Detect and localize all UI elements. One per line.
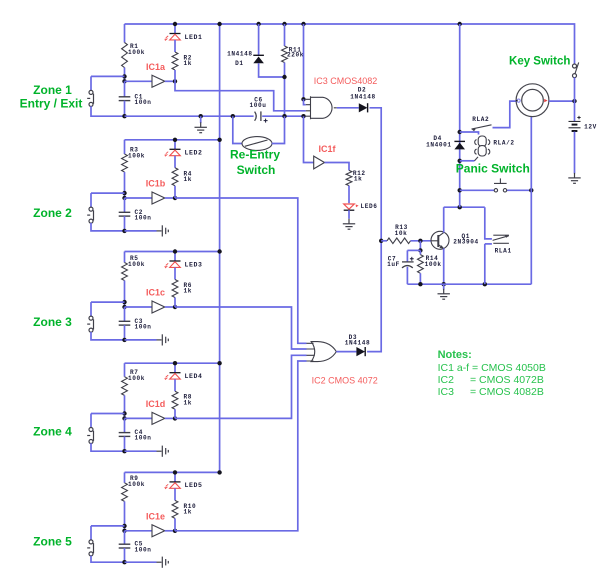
svg-text:1k: 1k (184, 509, 193, 516)
ground driver 0V (438, 289, 450, 299)
svg-text:100k: 100k (128, 152, 145, 159)
svg-text:Entry / Exit: Entry / Exit (20, 97, 83, 111)
node panic right on bell column (529, 188, 533, 192)
svg-text:IC1 a-f = CMOS 4050B: IC1 a-f = CMOS 4050B (438, 362, 546, 374)
diode D3 1N4148 (356, 347, 365, 356)
node battery positive (572, 99, 576, 103)
svg-text:Zone 1: Zone 1 (33, 83, 72, 97)
key switch lever (575, 62, 579, 74)
wire R8 bottom to output node (174, 409, 176, 418)
svg-text:Zone 2: Zone 2 (33, 206, 72, 220)
svg-text:100n: 100n (135, 435, 152, 442)
wire bell right to battery node (549, 100, 575, 102)
wire C2 top stub (124, 198, 126, 212)
wire zone4 output to IC2 input3 (175, 355, 307, 418)
resistor R2 1k (172, 52, 178, 70)
wire C3 bottom stub (124, 325, 126, 340)
wire R9 top stub (124, 472, 126, 482)
node zone2 output (173, 196, 177, 200)
resistor R4 1k (172, 168, 178, 186)
switch zone 2 (87, 207, 93, 223)
wire zone4 0V rail (125, 450, 157, 452)
svg-text:D1: D1 (235, 60, 244, 67)
capacitor C2 100n (119, 212, 131, 216)
svg-text:100n: 100n (135, 546, 152, 553)
wire D2 cathode down to base node (370, 108, 382, 241)
switch Key Switch (573, 64, 577, 78)
wire Q1 collector up (443, 207, 445, 232)
svg-text:100n: 100n (135, 214, 152, 221)
node LED2 top on zone rail (173, 138, 177, 142)
resistor R11 220k (282, 46, 288, 63)
ground zone2 (157, 225, 169, 236)
relay coil RLA/2 (475, 136, 490, 161)
capacitor C6 100u (series gap in rail) (254, 112, 263, 121)
svg-text:Key Switch: Key Switch (509, 55, 570, 67)
ground LED6 (343, 219, 355, 229)
node zone5 cap to 0V rail (122, 560, 126, 564)
node zone2 switch joins input (122, 191, 126, 195)
node R11 on bus (282, 22, 286, 26)
switch zone 3 (87, 316, 93, 332)
resistor R8 1k (172, 391, 178, 409)
svg-text:100n: 100n (135, 99, 152, 106)
wire R2 bottom to output node (174, 70, 176, 81)
svg-text:100k: 100k (128, 481, 145, 488)
wire LED2 cathode to R4 (174, 156, 176, 168)
wire R14 top stub (419, 250, 421, 254)
LED LED1 (164, 34, 180, 41)
wire zone5 switch lower lead to 0V rail (91, 556, 125, 563)
svg-text:10k: 10k (395, 230, 408, 237)
node base drive junction (379, 239, 383, 243)
switch Panic pushbutton (494, 178, 507, 192)
LED LED6 (344, 204, 359, 210)
svg-text:IC2 CMOS 4072: IC2 CMOS 4072 (312, 376, 378, 386)
wire IC3 input2 jog (304, 99, 306, 104)
wire LED1 anode stub (174, 24, 176, 34)
node relay column on bus (458, 22, 462, 26)
wire C4 bottom stub (124, 436, 126, 451)
wire IC1e output stub (165, 530, 175, 532)
svg-text:100k: 100k (128, 49, 145, 56)
svg-text:220k: 220k (287, 52, 304, 59)
wire zone3 0V rail (125, 339, 157, 341)
capacitor C7 1uF (402, 262, 414, 268)
wire LED3 anode stub (174, 252, 176, 262)
svg-text:IC3 CMOS4082: IC3 CMOS4082 (314, 76, 378, 86)
node D1-R11 junction (282, 75, 286, 79)
switch zone 1 (87, 90, 93, 106)
wire IC1e input (125, 530, 153, 532)
svg-text:1N4148: 1N4148 (350, 94, 376, 101)
op-amp buffer IC1e (152, 525, 165, 537)
node R14 on 0V rail (418, 282, 422, 286)
svg-text:Zone 5: Zone 5 (33, 535, 72, 549)
svg-text:LED1: LED1 (185, 34, 203, 41)
wire C7 branch (407, 249, 420, 251)
switch zone 4 (87, 428, 93, 444)
svg-text:1k: 1k (354, 176, 363, 183)
wire C4 top stub (124, 418, 126, 432)
wire R6 bottom to output node (174, 298, 176, 308)
svg-text:100n: 100n (135, 323, 152, 330)
wire zone5 switch upper lead (90, 526, 92, 540)
capacitor C3 100n (119, 321, 131, 325)
svg-text:Zone 3: Zone 3 (33, 315, 72, 329)
node zone5 rail taps supply column (217, 470, 221, 474)
capacitor C5 100n (119, 544, 131, 548)
svg-text:IC1d: IC1d (146, 399, 166, 409)
resistor R12 1k (346, 170, 352, 185)
wire C3 top stub (124, 307, 126, 321)
wire R1 bottom to input node (124, 68, 126, 82)
wire supply column to zone rails (219, 24, 221, 472)
wire D3 cathode up to base node (367, 241, 381, 352)
svg-text:Zone 4: Zone 4 (33, 425, 72, 439)
wire IC1f output to R12 (325, 163, 350, 171)
bell / sounder (516, 84, 549, 117)
node D4 top (458, 130, 462, 134)
resistor R10 1k (172, 500, 178, 518)
node zone4 cap to 0V rail (122, 449, 126, 453)
svg-text:Notes:: Notes: (438, 349, 472, 361)
wire R1 top stub (124, 24, 126, 43)
wire LED2 anode stub (174, 140, 176, 150)
op-amp buffer IC1a (152, 75, 165, 87)
wire node to R13 (381, 240, 387, 242)
node D1 on bus (256, 22, 260, 26)
node LED5 top on zone rail (173, 470, 177, 474)
LED LED4 (164, 373, 180, 380)
op-amp buffer IC1b (152, 192, 165, 204)
node zone3 IC input (122, 305, 126, 309)
svg-text:1k: 1k (184, 60, 193, 67)
wire ground stem (443, 284, 445, 289)
node IC3 input1 (301, 97, 305, 101)
svg-text:IC1b: IC1b (146, 179, 166, 189)
wire R5 top stub (124, 252, 126, 263)
wire Q1 emitter down (443, 248, 445, 284)
wire panic right lead (507, 189, 532, 191)
node LED1 top on bus (173, 22, 177, 26)
wire zone3 output to IC2 input2 (175, 307, 307, 349)
wire zone1 output to IC3 input (175, 81, 306, 111)
node zone1 switch joins input (122, 74, 126, 78)
capacitor C4 100n (119, 433, 131, 437)
wire base node down (419, 241, 421, 251)
svg-text:IC2: IC2 (438, 374, 455, 386)
wire R11 top stub (284, 24, 286, 46)
svg-text:LED2: LED2 (185, 150, 203, 157)
svg-text:100k: 100k (425, 261, 442, 268)
wire R5 bottom to input node (124, 281, 126, 308)
wire bell bottom column to 0V rail (530, 117, 532, 285)
svg-text:100u: 100u (249, 102, 266, 109)
svg-text:= CMOS 4072B: = CMOS 4072B (470, 374, 544, 386)
wire re-entry right leg (272, 116, 285, 143)
wire zone3 switch upper lead (90, 302, 92, 316)
node zone3 switch joins input (122, 300, 126, 304)
wire R3 top stub (124, 140, 126, 154)
wire R9 bottom to input node (124, 501, 126, 530)
resistor R5 100k (122, 263, 128, 281)
svg-text:IC1a: IC1a (146, 62, 166, 72)
node zone1 IC input (122, 79, 126, 83)
wire zone1 switch upper lead (90, 76, 92, 90)
wire battery negative to ground (574, 132, 576, 174)
wire coil top lead (460, 132, 479, 135)
wire zone2 0V rail (125, 230, 157, 232)
wire panic left lead (460, 189, 495, 191)
node zone5 switch joins input (122, 524, 126, 528)
op-amp IC2 4072 OR gate (307, 342, 337, 362)
wire R11 bottom to C6 rail (284, 63, 286, 117)
wire R3 bottom to input node (124, 172, 126, 198)
ground main 0V rail (195, 122, 207, 132)
wire R7 top stub (124, 363, 126, 377)
node D4 bottom (458, 159, 462, 163)
svg-text:RLA1: RLA1 (495, 248, 512, 255)
node emitter on 0V rail (442, 282, 446, 286)
wire zone3 top rail (125, 251, 220, 253)
node relay column joins collector (458, 205, 462, 209)
wire LED4 anode stub (174, 363, 176, 373)
wire collector top rail (444, 206, 485, 208)
node zone4 output (173, 416, 177, 420)
wire zone3 switch top to node (91, 301, 125, 303)
svg-text:1N4148: 1N4148 (345, 340, 371, 347)
node zone1 cap to 0V rail (122, 114, 126, 118)
LED LED2 (164, 149, 180, 156)
wire zone5 output to IC2 input4 (175, 361, 307, 531)
wire C1 top stub (124, 81, 126, 97)
op-amp IC3 4082 AND gate (306, 96, 337, 119)
resistor R3 100k (122, 154, 128, 172)
wire IC1a output stub (165, 80, 175, 82)
resistor R1 100k (122, 43, 128, 68)
svg-text:1N4148: 1N4148 (227, 51, 253, 58)
wire zone2 output to IC2 input1 (175, 198, 307, 343)
wire D1 cathode stub (258, 24, 260, 55)
wire RLA1 lower lead to 0V (484, 244, 486, 284)
svg-text:Panic Switch: Panic Switch (456, 162, 530, 176)
ground zone4 (157, 446, 169, 457)
wire driver 0V rail (407, 283, 531, 285)
svg-text:Re-Entry: Re-Entry (230, 147, 280, 161)
wire C2 bottom stub (124, 216, 126, 231)
relay contact RLA1 (493, 235, 509, 243)
battery 12V (569, 116, 581, 131)
wire IC1b output stub (165, 197, 175, 199)
node C6 rail to IC1f branch (301, 114, 305, 118)
wire RLA2 to bell left (493, 101, 517, 128)
wire LED5 cathode to R10 (174, 488, 176, 500)
op-amp buffer IC1c (152, 301, 165, 313)
node zone4 IC input (122, 416, 126, 420)
node zone4 rail taps supply column (217, 361, 221, 365)
wire C5 bottom stub (124, 548, 126, 562)
node re-entry left tap (231, 114, 235, 118)
wire zone1 0V / C6 rail (left part) (125, 115, 306, 117)
wire C5 top stub (124, 531, 126, 544)
ground battery (568, 173, 580, 183)
wire ground stem (200, 116, 202, 123)
relay contact RLA2 (472, 125, 492, 129)
wire zone2 switch top to node (91, 192, 125, 194)
op-amp buffer IC1f (314, 156, 325, 169)
re-entry switch (242, 137, 272, 151)
node zone3 cap to 0V rail (122, 338, 126, 342)
node zone4 switch joins input (122, 411, 126, 415)
node zone2 rail taps supply column (217, 138, 221, 142)
wire R13 to Q1 base (411, 240, 432, 242)
wire zone5 switch top to node (91, 525, 125, 527)
resistor R13 10k (387, 238, 411, 244)
wire D1 anode to R11 bottom (259, 63, 285, 77)
svg-text:LED6: LED6 (361, 203, 378, 210)
wire R14 bottom stub (419, 273, 421, 284)
wire zone5 0V rail (125, 561, 157, 563)
wire IC1c input (125, 306, 153, 308)
wire LED4 cathode to R8 (174, 379, 176, 391)
wire zone4 top rail (125, 362, 220, 364)
wire zone2 switch upper lead (90, 193, 92, 207)
wire C7 bottom stub (406, 267, 408, 284)
svg-text:Switch: Switch (237, 163, 276, 177)
wire IC2 output to D3 (336, 351, 356, 353)
wire +12V top bus (125, 24, 575, 64)
diode D1 1N4148 (253, 55, 264, 63)
wire bus to IC3 inputs 1-2 (303, 24, 305, 99)
wire zone2 top rail (125, 139, 220, 141)
op-amp buffer IC1d (152, 412, 165, 424)
node main 0V rail ground tap (199, 114, 203, 118)
LED LED3 (164, 261, 180, 268)
wire IC3 output to D2 (337, 107, 359, 109)
svg-text:12V: 12V (584, 124, 597, 131)
svg-text:LED4: LED4 (185, 373, 203, 380)
diode D2 1N4148 (359, 103, 368, 112)
node zone1 output (173, 79, 177, 83)
resistor R7 100k (122, 377, 128, 396)
ground zone3 (157, 334, 169, 345)
resistor R9 100k (122, 483, 128, 502)
svg-text:100k: 100k (128, 375, 145, 382)
wire re-entry left leg (233, 116, 242, 143)
node C7/R14 tap (418, 248, 422, 252)
wire zone5 top rail (125, 471, 220, 473)
wire IC1b input (125, 197, 153, 199)
wire LED5 anode stub (174, 472, 176, 482)
node zone2 IC input (122, 196, 126, 200)
wire zone4 switch upper lead (90, 414, 92, 428)
switch zone 5 (87, 540, 93, 556)
svg-text:RLA/2: RLA/2 (493, 140, 514, 147)
svg-text:RLA2: RLA2 (472, 116, 489, 123)
wire RLA1 lower stub (485, 243, 492, 245)
wire zone1 switch top to node (91, 75, 125, 77)
svg-text:2N3904: 2N3904 (453, 239, 479, 246)
node R13/base/R14 (418, 239, 422, 243)
node zone5 IC input (122, 529, 126, 533)
svg-text:1k: 1k (184, 288, 193, 295)
node R11/re-entry on C6 rail (282, 114, 286, 118)
bell terminal markers (517, 99, 520, 102)
svg-text:LED5: LED5 (185, 482, 203, 489)
LED LED5 (164, 482, 180, 489)
wire LED3 cathode to R6 (174, 268, 176, 280)
svg-text:IC1c: IC1c (146, 288, 165, 298)
svg-text:IC1e: IC1e (146, 512, 165, 522)
wire zone1 switch lower lead to 0V rail (91, 106, 125, 116)
node LED3 top on zone rail (173, 249, 177, 253)
wire IC1c output stub (165, 306, 175, 308)
node zone5 output (173, 529, 177, 533)
wire zone4 switch lower lead to 0V rail (91, 443, 125, 451)
wire C1 bottom stub (124, 101, 126, 117)
wire LED1 cathode to R2 (174, 40, 176, 52)
node LED4 top on zone rail (173, 361, 177, 365)
svg-text:1uF: 1uF (387, 261, 400, 268)
wire relay column from bus to collector (459, 24, 461, 207)
wire IC1a input (125, 80, 153, 82)
svg-text:100k: 100k (128, 261, 145, 268)
svg-text:D2: D2 (358, 87, 367, 94)
wire R4 bottom to output node (174, 186, 176, 198)
node zone3 output (173, 305, 177, 309)
node supply column on bus (217, 22, 221, 26)
diode D4 1N4001 (454, 141, 465, 149)
transistor Q1 2N3904 (431, 231, 449, 249)
wire coil bottom lead (460, 160, 475, 162)
svg-text:1N4001: 1N4001 (426, 141, 452, 148)
node panic left (458, 188, 462, 192)
wire zone2 switch lower lead to 0V rail (91, 223, 125, 231)
wire LED6 to ground (348, 210, 350, 219)
wire RLA1 upper lead (485, 207, 492, 239)
svg-text:1k: 1k (184, 399, 193, 406)
wire key switch to battery (574, 77, 576, 121)
wire R7 bottom to input node (124, 395, 126, 418)
node IC3 pin1 column on bus (301, 22, 305, 26)
ground zone5 (157, 557, 169, 568)
node zone3 rail taps supply column (217, 249, 221, 253)
svg-text:IC3: IC3 (438, 386, 455, 398)
wire C6 node to IC1f input (304, 116, 314, 162)
svg-text:LED3: LED3 (185, 261, 203, 268)
node zone2 cap to 0V rail (122, 229, 126, 233)
wire R10 bottom to output node (174, 518, 176, 530)
svg-text:IC1f: IC1f (318, 144, 336, 154)
wire zone4 switch top to node (91, 413, 125, 415)
wire IC1d output stub (165, 417, 175, 419)
capacitor C1 100n (119, 97, 131, 101)
wire zone3 switch lower lead to 0V rail (91, 332, 125, 340)
svg-text:= CMOS 4082B: = CMOS 4082B (470, 386, 544, 398)
wire R12 to LED6 (348, 186, 350, 204)
wire IC1d input (125, 417, 153, 419)
resistor R6 1k (172, 280, 178, 298)
svg-text:1k: 1k (184, 176, 193, 183)
node RLA1 on 0V rail (483, 282, 487, 286)
wire C7 top stub (406, 250, 408, 262)
resistor R14 100k (418, 255, 424, 274)
